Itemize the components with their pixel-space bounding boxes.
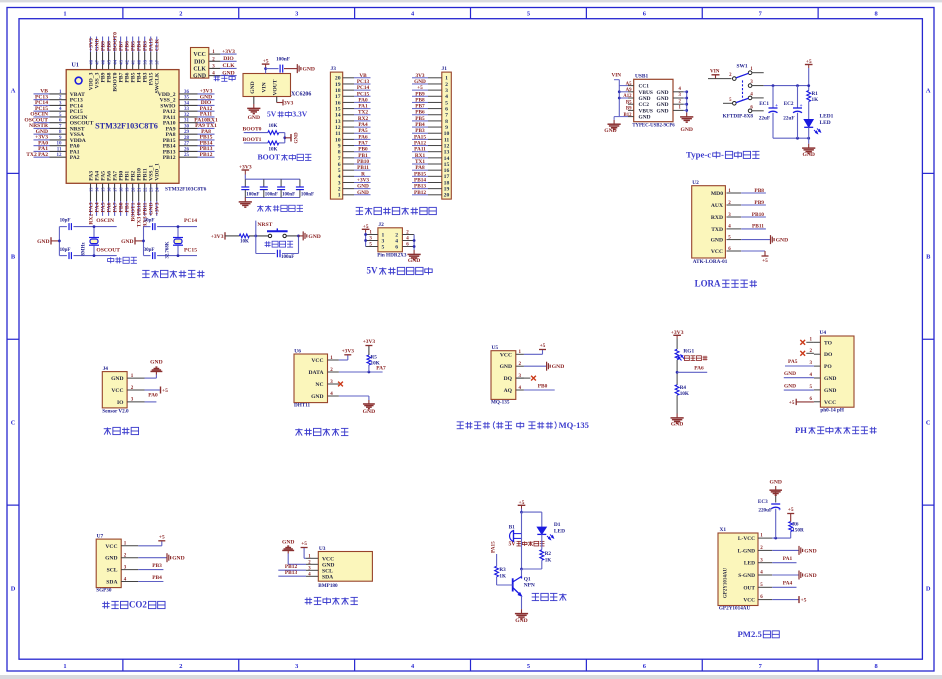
svg-text:VCC: VCC [111,388,123,394]
svg-text:PB9: PB9 [415,91,425,97]
svg-text:D: D [926,585,931,592]
ground usb right [686,113,688,117]
svg-text:PB3: PB3 [415,128,425,134]
svg-text:3V3: 3V3 [415,73,424,79]
svg-text:PA0: PA0 [358,97,368,103]
wire pm out [772,586,796,588]
svg-text:VCC: VCC [711,249,723,255]
svg-text:STM32F103C8T6: STM32F103C8T6 [95,121,158,130]
svg-text:+3V3: +3V3 [239,165,252,171]
no-connect ph to [806,341,814,343]
svg-text:PA7: PA7 [358,141,368,147]
svg-text:PC15: PC15 [357,91,370,97]
svg-text:PB4: PB4 [152,575,162,581]
svg-text:GND: GND [248,115,260,121]
svg-text:13: 13 [444,150,450,156]
svg-text:12: 12 [444,143,450,149]
svg-text:3: 3 [295,663,298,670]
photoresistor RG1 [675,348,694,360]
svg-text:GND: GND [680,127,692,133]
wire pm vcc2 [772,599,799,601]
svg-text:+5: +5 [806,59,812,65]
svg-text:2: 2 [338,187,341,193]
svg-text:SDA: SDA [322,574,333,580]
label photoresistor [684,356,689,361]
svg-text:18: 18 [444,180,450,186]
border zone ticks [122,8,124,19]
svg-text:2: 2 [445,82,448,88]
svg-text:GND: GND [357,190,369,196]
wire mq vcc [524,353,543,355]
wire rg1 junction [676,360,678,385]
svg-text:8: 8 [445,119,448,125]
power port GND rotated [290,134,292,142]
svg-text:Q1: Q1 [524,577,531,583]
svg-text:100nF: 100nF [265,192,278,197]
svg-text:+3V3: +3V3 [357,177,369,183]
svg-text:PA4: PA4 [783,581,793,587]
caption harmful gas MQ-135 [457,421,464,423]
svg-text:32.768K: 32.768K [166,241,171,258]
wire sgp vcc [138,545,162,547]
svg-text:VCC: VCC [193,52,206,58]
svg-text:PB1: PB1 [358,153,368,159]
svg-text:36: 36 [184,90,190,95]
svg-text:+5: +5 [417,85,423,91]
svg-text:PA15: PA15 [414,134,426,140]
ground pm top [775,486,777,490]
svg-text:GND: GND [295,132,300,144]
svg-text:PB13: PB13 [414,184,426,190]
svg-text:IO: IO [117,400,124,406]
svg-text:1: 1 [63,663,66,670]
wire +5 backup [365,229,367,232]
svg-text:CO2: CO2 [129,600,147,610]
svg-text:GND: GND [105,556,117,562]
svg-text:15: 15 [444,162,450,168]
capacitor C2 100nF [263,179,265,186]
capacitor EC1 22uF [759,86,778,139]
mcu U1 bottom pins 13-24 [90,183,92,201]
caption soil moisture [104,428,111,430]
svg-text:1: 1 [338,193,341,199]
svg-text:Type-c: Type-c [686,150,711,160]
svg-text:R2: R2 [545,551,552,557]
power port +5 typec [808,65,810,69]
svg-text:26: 26 [184,147,190,152]
svg-text:VCC: VCC [311,358,323,364]
svg-text:15: 15 [101,187,106,192]
svg-text:D: D [11,585,16,592]
power port GND pm1 [798,546,800,555]
svg-text:R3: R3 [499,567,506,573]
svg-text:EC3: EC3 [758,499,768,505]
wire boot join [284,133,286,143]
no-connect ph do [806,352,814,354]
connector J3 header 20pin [330,72,342,199]
svg-text:PB7: PB7 [415,104,425,110]
svg-text:19: 19 [125,187,130,192]
svg-text:11: 11 [444,137,450,143]
svg-text:5: 5 [527,663,530,670]
svg-text:+5: +5 [788,507,794,513]
svg-text:J3: J3 [331,66,337,72]
svg-text:GND: GND [671,422,683,428]
svg-text:BOOT: BOOT [258,153,281,162]
sensor U5 MQ-135 [491,351,516,400]
svg-text:LORA: LORA [695,278,721,288]
svg-text:GND: GND [604,128,616,134]
wire led to r2 [541,534,543,549]
svg-text:3: 3 [295,11,298,18]
power port +3V3 rg1 [676,335,678,338]
svg-text:GND: GND [37,239,49,245]
svg-text:PA15: PA15 [491,541,497,553]
svg-text:PB13: PB13 [285,570,298,576]
svg-text:CLK: CLK [222,63,235,69]
svg-text:100nF: 100nF [276,57,290,63]
caption chip filter caps [257,205,263,207]
wire j4 vcc [145,389,160,391]
svg-text:PB8: PB8 [415,97,425,103]
svg-text:37: 37 [155,59,160,64]
svg-text:2: 2 [179,11,182,18]
svg-text:CC1: CC1 [639,84,650,90]
button S1 reset [267,228,288,237]
svg-text:GND: GND [657,90,669,96]
wire sgp sda [138,581,163,583]
svg-text:B: B [11,254,16,261]
caption CO2 detection [103,601,105,608]
svg-text:TX1: TX1 [415,159,425,165]
svg-text:+5: +5 [162,388,168,394]
svg-text:22uF: 22uF [759,116,770,122]
svg-text:100nF: 100nF [281,255,294,260]
resistor R1 1K [807,91,811,102]
svg-text:39: 39 [143,59,148,64]
svg-text:PB10: PB10 [752,212,765,218]
svg-text:L-GND: L-GND [738,548,755,554]
wire buzzer down [521,534,523,569]
power port +3V3 pullup [365,345,372,347]
svg-text:U4: U4 [820,330,827,336]
capacitor EC2 22uF [783,86,802,139]
ground typec leds [808,138,810,144]
caption mcu minimal system [142,269,149,271]
svg-text:Pin HDR2X3: Pin HDR2X3 [377,253,407,259]
power port +5 sgp [158,540,165,542]
svg-text:AQ: AQ [504,388,513,394]
wire bmp gnd [287,554,289,565]
svg-text:PB12: PB12 [414,190,426,196]
svg-text:CLK: CLK [155,38,161,51]
svg-text:GND: GND [802,152,814,158]
svg-text:NC: NC [315,382,323,388]
svg-text:PA0: PA0 [148,393,158,399]
svg-text:+: + [800,104,803,109]
power port +5 bmp [301,547,308,549]
svg-text:7: 7 [445,113,448,119]
no-connect mq dq [516,377,531,379]
capacitor C4 100nF [299,179,301,186]
svg-text:PB0: PB0 [538,383,548,389]
svg-text:MQ-135: MQ-135 [491,400,510,406]
svg-text:PB10: PB10 [357,159,369,165]
power port GND pm2 [798,571,800,580]
buzzer B1 [509,525,522,542]
wire bmp sda [278,575,306,577]
svg-text:PB8: PB8 [754,188,764,194]
connector X1 GP2Y1014AU [718,533,758,606]
svg-text:SW1: SW1 [737,64,748,70]
svg-text:GND: GND [769,480,781,486]
svg-text:RX1: RX1 [415,153,426,159]
svg-text:GND: GND [363,409,375,415]
svg-text:24: 24 [155,187,160,192]
svg-text:31: 31 [184,119,190,124]
svg-text:LED: LED [554,529,565,535]
connector USB1 TYPEC-USB2-9CP6 [634,79,673,121]
svg-text:PC14: PC14 [184,218,197,224]
power port GND lora [741,239,770,241]
svg-text:GND: GND [639,96,651,102]
mcu U1 top pins 48-37 [90,37,92,53]
svg-text:SWCLK: SWCLK [155,72,161,93]
capacitor 100nF at regulator [279,65,281,73]
svg-text:48: 48 [89,59,94,64]
svg-text:TX2: TX2 [358,110,368,116]
resistor R4 10K [675,385,679,396]
wire filter cap rails [244,170,246,175]
ground filter caps [244,198,246,202]
svg-text:44: 44 [113,59,118,64]
connector U8 download port [191,48,209,79]
svg-text:1: 1 [445,76,448,82]
svg-text:10K: 10K [371,361,380,367]
svg-text:L-VCC: L-VCC [738,536,755,542]
svg-text:GND: GND [657,96,669,102]
svg-text:18: 18 [335,88,341,94]
svg-text:U3: U3 [319,546,326,552]
regulator U9 XC6206 [243,74,291,97]
wire pm led [772,562,796,564]
mcu U1 body [66,63,206,193]
wire r4 gnd [676,395,678,413]
svg-text:GND: GND [282,540,294,546]
module U2 ATK-LORA-01 [692,186,726,258]
resistor R2 1K [540,550,544,561]
svg-text:PB11: PB11 [357,165,369,171]
svg-text:6: 6 [395,245,398,251]
module U4 PH sensor [820,336,854,407]
svg-text:AUX: AUX [711,203,723,209]
wires usb right [686,92,688,113]
connector J2 Pin HDR2X3 [378,228,403,252]
svg-text:PB9: PB9 [754,200,764,206]
svg-text:PC14: PC14 [357,85,370,91]
capacitor 100nF reset [276,250,278,258]
wire j4 gnd [145,377,157,379]
svg-text:GND: GND [824,376,836,382]
svg-text:+3V3: +3V3 [363,339,376,345]
svg-text:USB1: USB1 [635,74,648,80]
svg-text:23: 23 [149,187,154,192]
svg-text:1K: 1K [812,97,819,103]
svg-text:35: 35 [184,96,190,101]
svg-text:5V: 5V [509,541,517,547]
ground rg1 [676,414,678,418]
svg-text:40: 40 [137,59,142,64]
svg-text:B1: B1 [509,525,515,531]
ground j4 [155,371,157,374]
svg-text:100nF: 100nF [282,192,295,197]
svg-text:ph0-14 pH: ph0-14 pH [820,408,844,414]
wire pm sgnd [772,574,799,576]
ground alarm [521,609,523,613]
svg-text:+5: +5 [301,541,307,547]
resistor R3 1K [495,566,499,577]
svg-text:14: 14 [95,187,100,192]
svg-text:+5: +5 [540,343,546,349]
led D1 [537,522,565,540]
svg-text:27: 27 [184,142,190,147]
svg-text:MD0: MD0 [711,191,723,197]
svg-text:PA4: PA4 [358,122,368,128]
led LED1 [804,114,833,139]
svg-text:14: 14 [444,156,450,162]
svg-text:VBUS: VBUS [639,108,653,114]
svg-text:DATA: DATA [308,370,323,376]
resistor R6 150R [789,522,793,532]
svg-text:U1: U1 [72,63,79,69]
power port +5 mq [539,349,546,351]
svg-text:VCC: VCC [743,598,755,604]
svg-text:+3V3: +3V3 [671,330,684,336]
wires crystal2 [144,226,151,228]
svg-text:J2: J2 [378,222,384,228]
svg-text:U2: U2 [692,180,699,186]
svg-text:8: 8 [874,11,877,18]
svg-text:GND: GND [500,364,512,370]
wires lora nets [741,192,766,194]
svg-text:13: 13 [89,187,94,192]
svg-text:PB12: PB12 [163,155,176,161]
no-connect dht nc [328,383,339,385]
svg-text:5: 5 [527,11,530,18]
wire +5 to VIN [265,64,267,69]
top gray strip [0,0,942,2]
wires reset circuit [249,235,270,237]
svg-text:5: 5 [338,168,341,174]
power port GND reset [302,231,304,240]
mcu U1 left pins 1-12 [34,93,50,95]
svg-text:XC6206: XC6206 [291,92,311,98]
crystal Y1 8MHz [82,225,100,257]
power port +5 ph [796,401,814,403]
svg-text:14: 14 [335,113,341,119]
svg-text:32: 32 [184,113,190,118]
svg-text:DO: DO [824,352,833,358]
svg-text:D1: D1 [554,522,561,528]
wire dht gnd [339,395,369,397]
svg-text:PB0: PB0 [358,147,368,153]
svg-text:PB3: PB3 [152,563,162,569]
svg-text:DQ: DQ [504,376,513,382]
svg-text:VCC: VCC [824,400,836,406]
ground at regulator [253,104,255,108]
svg-text:20: 20 [335,76,341,82]
svg-text:GND: GND [121,239,133,245]
svg-text:SDA: SDA [106,580,117,586]
svg-text:-: - [721,150,724,160]
svg-text:VIN: VIN [612,73,622,79]
svg-text:LED: LED [820,120,831,126]
svg-text:GND: GND [408,258,420,264]
wire bmp vcc [304,557,306,559]
svg-text:PA5: PA5 [358,128,368,134]
svg-text:1: 1 [63,11,66,18]
svg-text:GND: GND [804,548,816,554]
capacitor C3 100nF [280,179,282,186]
svg-text:SGP30: SGP30 [96,588,112,594]
svg-text:6: 6 [338,162,341,168]
svg-text:Sensor V2.0: Sensor V2.0 [102,409,129,415]
svg-text:20: 20 [131,187,136,192]
svg-text:33: 33 [184,107,190,112]
svg-text:10K: 10K [680,391,689,397]
wire ph po [785,365,814,367]
wire j4 io [145,401,157,403]
svg-text:PB6: PB6 [415,110,425,116]
svg-text:+5: +5 [789,400,795,406]
wire sgp scl [138,569,163,571]
svg-text:12: 12 [57,153,63,158]
svg-text:21: 21 [137,187,142,192]
svg-text:J4: J4 [103,366,109,372]
svg-text:VOUT: VOUT [273,79,279,95]
power port +5 j4 [160,387,162,394]
svg-text:100nF: 100nF [246,192,259,197]
svg-text:PA12: PA12 [414,141,426,147]
power port +5 r6 [787,513,794,515]
svg-text:B9: B9 [626,107,632,112]
svg-text:+3V3: +3V3 [211,234,224,240]
svg-text:OSCIN: OSCIN [96,218,114,224]
svg-text:RG1: RG1 [683,348,694,354]
svg-text:PA6: PA6 [694,366,704,372]
svg-text:STM32F103C8T6: STM32F103C8T6 [165,187,207,193]
svg-text:11: 11 [335,131,341,137]
power port +5 lora [741,250,765,252]
svg-text:+5: +5 [519,500,525,506]
svg-text:20: 20 [444,193,450,199]
svg-text:GND: GND [552,364,564,370]
svg-text:VDD_1: VDD_1 [155,163,161,181]
svg-text:GND: GND [784,371,796,377]
svg-text:B5: B5 [626,100,632,105]
svg-text:VB: VB [359,73,367,79]
svg-text:B: B [926,254,931,261]
svg-text:TX2 PA2: TX2 PA2 [26,152,48,158]
svg-text:PB12: PB12 [200,152,213,158]
svg-text:29: 29 [184,130,190,135]
svg-text:PB5: PB5 [415,116,425,122]
svg-text:GND: GND [804,573,816,579]
svg-text:6: 6 [445,106,448,112]
svg-text:9: 9 [338,143,341,149]
svg-text:VBUS: VBUS [639,90,653,96]
svg-text:38: 38 [149,59,154,64]
